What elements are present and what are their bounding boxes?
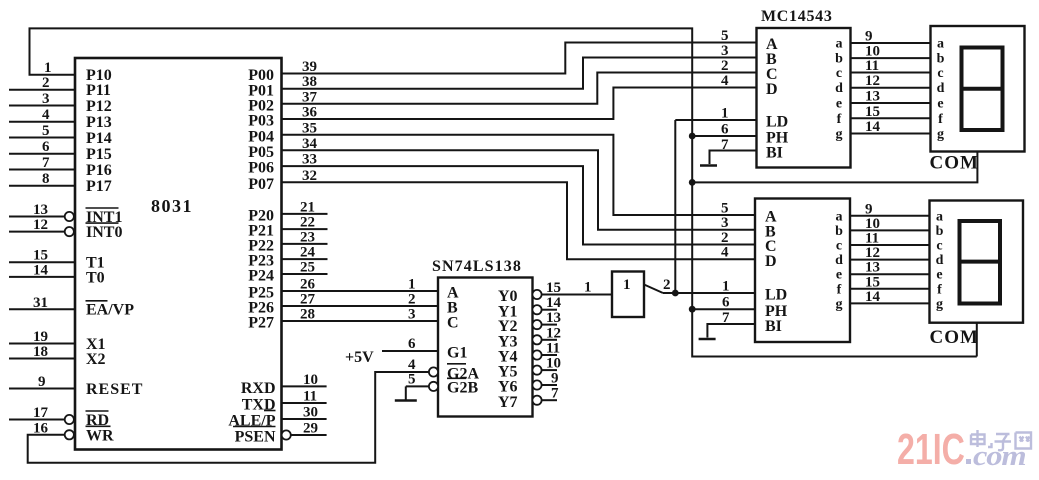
svg-text:8: 8 [42,171,50,187]
svg-text:13: 13 [546,310,561,326]
wire P06 pin33 to U3.C [282,166,756,244]
wire U2.c pin 11 to DS1.c [851,72,931,74]
svg-text:7: 7 [721,137,729,153]
junction PH net / U2.PH [689,133,696,140]
inversion bubble U4.G2A [429,367,438,376]
wire RD pin 17 stub [9,419,65,421]
svg-text:P15: P15 [86,146,112,163]
wire U4.Y7 pin 7 stub [542,399,557,401]
wire P11 pin 2 stub [9,89,75,91]
svg-text:COM: COM [930,153,979,174]
svg-text:15: 15 [33,248,48,264]
wire P13 pin 4 stub [9,121,75,123]
wire P25 pin 26 to U4.A [282,290,439,292]
svg-text:2: 2 [42,75,50,91]
inversion bubble U4.Y3 [532,335,541,344]
wire U3.a pin 9 to DS2.a [850,215,929,217]
wire P12 pin 3 stub [9,105,75,107]
svg-text:2: 2 [721,58,729,74]
wire P03 pin36 to U2.D [282,88,757,120]
svg-text:e: e [936,268,942,283]
svg-text:c: c [936,239,942,254]
junction LD net [672,290,679,297]
wire U4.Y2 pin 13 stub [542,324,557,326]
wire P26 pin 27 to U4.B [282,305,439,307]
svg-text:e: e [836,97,842,112]
svg-text:6: 6 [721,122,729,138]
svg-text:LD: LD [765,287,787,304]
inversion bubble U4.Y5 [532,366,541,375]
svg-text:10: 10 [303,372,318,388]
wire U4.Y5 pin 10 stub [542,369,557,371]
svg-text:g: g [937,127,944,142]
svg-text:3: 3 [408,307,416,323]
svg-text:b: b [835,52,843,67]
svg-text:1: 1 [408,277,416,293]
svg-text:f: f [938,112,943,127]
svg-text:2: 2 [721,230,729,246]
svg-text:P17: P17 [86,178,112,195]
svg-text:29: 29 [303,421,318,437]
wire P17 pin 8 stub [9,185,75,187]
IC U3 MC14543 body [755,199,850,343]
svg-text:12: 12 [865,73,880,89]
inversion bubble INT1 [65,212,74,221]
inversion bubble U4.Y4 [532,350,541,359]
svg-text:24: 24 [300,245,316,261]
svg-text:T0: T0 [86,269,105,286]
svg-text:9: 9 [38,374,46,390]
svg-text:G1: G1 [447,345,467,362]
svg-text:P05: P05 [248,144,274,161]
svg-text:P04: P04 [248,128,274,145]
svg-text:11: 11 [546,341,560,357]
wire EA/VP pin 31 stub [9,308,75,310]
svg-text:P27: P27 [248,315,274,332]
svg-text:10: 10 [865,216,880,232]
svg-text:g: g [936,297,943,312]
wire U2.f pin 15 to DS1.f [851,117,931,119]
svg-text:4: 4 [42,107,50,123]
svg-text:4: 4 [721,245,729,261]
svg-text:d: d [936,253,944,268]
wire P22 pin 23 stub [282,243,328,245]
svg-text:15: 15 [865,274,880,290]
svg-text:27: 27 [300,292,316,308]
svg-text:19: 19 [33,329,48,345]
svg-text:5: 5 [408,372,416,388]
wire U2.e pin 13 to DS1.e [851,102,931,104]
wire U4.G2B pin5 to ground [406,385,429,387]
wire +5V to U4.G1 pin6 [382,350,438,352]
svg-text:11: 11 [303,389,317,405]
svg-text:25: 25 [300,260,315,276]
svg-text:21: 21 [300,199,315,215]
svg-text:14: 14 [865,289,881,305]
svg-text:31: 31 [33,295,48,311]
wire P02 pin37 to U2.C [282,73,757,104]
inversion bubble INT0 [65,227,74,236]
svg-text:12: 12 [33,217,48,233]
svg-text:D: D [766,81,778,98]
svg-text:11: 11 [865,58,879,74]
svg-text:RXD: RXD [241,380,276,397]
svg-text:MC14543: MC14543 [761,8,833,25]
wire DS2.COM to PH net bottom [976,323,978,357]
svg-text:26: 26 [300,277,316,293]
wire X1 pin 19 stub [9,343,75,345]
svg-text:13: 13 [33,202,48,218]
svg-text:c: c [836,66,842,81]
svg-text:P06: P06 [248,160,274,177]
wire U3.c pin 11 to DS2.c [850,244,929,246]
svg-text:18: 18 [33,344,48,360]
svg-text:15: 15 [546,280,561,296]
wire Y0 to inverter U5 input [542,294,612,296]
wire U3.f pin 15 to DS2.f [850,288,929,290]
svg-text:COM: COM [930,327,979,348]
svg-text:14: 14 [33,262,49,278]
wire to U2.LD pin1 [675,119,756,121]
svg-text:1: 1 [721,106,729,122]
inverter gate U5 body [612,272,644,318]
svg-text:17: 17 [33,405,49,421]
wire U3.e pin 13 to DS2.e [850,273,929,275]
wire WR pin16 to G2A net [28,372,429,463]
svg-text:12: 12 [546,325,561,341]
wire P00 pin39 to U2.A [282,43,757,74]
svg-text:13: 13 [865,260,880,276]
svg-text:d: d [835,81,843,96]
svg-text:b: b [936,224,944,239]
svg-text:5: 5 [42,123,50,139]
svg-text:g: g [836,297,843,312]
wire U3.BI pin7 to ground [707,324,755,338]
wire P05 pin34 to U3.B [282,150,756,229]
svg-text:b: b [835,224,843,239]
wire PSEN pin 29 stub [291,434,327,436]
inversion bubble U4.Y0 [532,290,541,299]
svg-text:P11: P11 [86,82,111,99]
svg-text:C: C [447,315,459,332]
7-segment display DS1 body [931,26,1025,152]
svg-text:11: 11 [865,231,879,247]
svg-text:a: a [936,209,943,224]
svg-text:P13: P13 [86,114,112,131]
ground symbol at U3.BI [699,338,716,341]
svg-text:6: 6 [42,139,50,155]
wire PH net to U2.PH pin6 [692,135,756,137]
wire P27 pin 28 to U4.C [282,320,439,322]
wire U4.Y1 pin 14 stub [542,309,557,311]
svg-text:b: b [937,52,945,67]
svg-text:Y7: Y7 [498,394,518,411]
svg-text:9: 9 [551,371,559,387]
wire P04 pin35 to U3.A [282,135,756,215]
wire X2 pin 18 stub [9,358,75,360]
svg-text:LD: LD [766,114,788,131]
svg-text:WR: WR [86,427,114,444]
inversion bubble U4.Y1 [532,305,541,314]
wire U4.Y4 pin 11 stub [542,354,557,356]
inversion bubble U4.G2B [429,382,438,391]
svg-text:7: 7 [551,386,559,402]
wire U3.d pin 12 to DS2.d [850,259,929,261]
svg-text:BI: BI [766,145,783,162]
wire U2.g pin 14 to DS1.g [851,133,931,135]
wire TXD pin 11 stub [282,402,327,404]
svg-text:P24: P24 [248,268,274,285]
ground symbol at U4.G2B [405,386,407,400]
7-segment display DS2 body [930,201,1024,323]
svg-text:a: a [836,37,843,52]
svg-text:3: 3 [42,91,50,107]
svg-text:23: 23 [300,229,315,245]
svg-text:1: 1 [584,280,592,296]
svg-text:12: 12 [865,245,880,261]
svg-text:RESET: RESET [86,381,143,398]
svg-text:a: a [937,37,944,52]
wire INT0 pin 12 stub [9,231,65,233]
inversion bubble PSEN [282,430,291,439]
svg-text:1: 1 [722,279,730,295]
svg-text:14: 14 [546,295,562,311]
svg-text:3: 3 [721,43,729,59]
svg-text:2: 2 [663,277,671,293]
junction PH net / U3.PH [689,306,696,313]
wire PH net to U3.PH pin6 [692,308,755,310]
wire U3.g pin 14 to DS2.g [850,302,929,304]
inversion bubble U4.Y2 [532,320,541,329]
svg-text:5: 5 [721,28,729,44]
ground symbol at U2.BI [700,164,717,167]
svg-text:a: a [836,209,843,224]
wire P10 pin1 to top net [30,28,977,356]
IC U2 MC14543 body [757,28,851,168]
wire RXD pin 10 stub [282,385,327,387]
svg-text:e: e [836,268,842,283]
wire U2.d pin 12 to DS1.d [851,87,931,89]
wire P21 pin 22 stub [282,228,328,230]
wire P16 pin 7 stub [9,169,75,171]
svg-text:5: 5 [721,201,729,217]
svg-text:c: c [937,66,943,81]
wire U2.BI pin7 to ground [710,151,757,165]
svg-text:f: f [837,112,842,127]
svg-text:28: 28 [300,307,315,323]
wire DS1.COM to PH net [692,152,977,183]
IC U4 SN74LS138 decoder body [438,278,533,417]
svg-text:INT0: INT0 [86,224,122,241]
svg-text:P12: P12 [86,98,112,115]
svg-text:13: 13 [865,89,880,105]
wire LD net vertical [674,120,676,293]
wire T0 pin 14 stub [9,276,75,278]
wire P24 pin 25 stub [282,273,328,275]
wire U3.b pin 10 to DS2.b [850,229,929,231]
svg-text:16: 16 [33,420,49,436]
wire RESET pin 9 stub [9,388,75,390]
svg-text:d: d [835,253,843,268]
svg-text:2: 2 [408,292,416,308]
wire INT1 pin 13 stub [9,216,65,218]
svg-text:8031: 8031 [151,196,193,216]
svg-text:c: c [836,239,842,254]
wire U4.Y6 pin 9 stub [542,384,557,386]
wire T1 pin 15 stub [9,261,75,263]
svg-text:9: 9 [865,29,873,45]
inversion bubble WR [65,430,74,439]
svg-text:G2B: G2B [447,380,478,397]
svg-text:SN74LS138: SN74LS138 [432,258,522,275]
wire P07 pin32 to U3.D [282,182,756,259]
wire U2.b pin 10 to DS1.b [851,57,931,59]
inversion bubble RD [65,415,74,424]
IC U1 8031 microcontroller body [75,58,282,450]
svg-text:X2: X2 [86,351,106,368]
wire ALE/P pin 30 stub [282,418,327,420]
svg-text:4: 4 [721,73,729,89]
svg-text:22: 22 [300,215,315,231]
watermark 21IC logo [897,425,1031,474]
svg-text:f: f [937,282,942,297]
inversion bubble U4.Y7 [532,396,541,405]
wire P14 pin 5 stub [9,137,75,139]
svg-text:1: 1 [623,277,631,293]
svg-text:EA/VP: EA/VP [86,302,134,319]
svg-text:14: 14 [865,119,881,135]
svg-text:f: f [837,282,842,297]
svg-text:PSEN: PSEN [235,429,276,446]
svg-text:D: D [765,253,777,270]
wire U4.Y3 pin 12 stub [542,339,557,341]
svg-text:9: 9 [865,201,873,217]
svg-text:7: 7 [42,155,50,171]
svg-text:+5V: +5V [345,349,374,366]
svg-text:1: 1 [44,60,52,76]
svg-text:6: 6 [722,295,730,311]
wire P23 pin 24 stub [282,258,328,260]
wire U2.a pin 9 to DS1.a [851,42,931,44]
wire P20 pin 21 stub [282,213,328,215]
svg-text:7: 7 [722,310,730,326]
svg-text:P07: P07 [248,176,274,193]
svg-text:P16: P16 [86,162,112,179]
wire P01 pin38 to U2.B [282,58,757,89]
svg-text:30: 30 [303,405,318,421]
wire P15 pin 6 stub [9,153,75,155]
svg-text:6: 6 [408,336,416,352]
svg-text:21IC: 21IC [897,425,965,474]
wire U5 output pin2 to LD net [644,285,663,294]
inversion bubble U4.Y6 [532,380,541,389]
svg-text:P03: P03 [248,113,274,130]
DS1 digit figure 8 [962,48,1003,131]
svg-text:g: g [836,127,843,142]
svg-text:15: 15 [865,104,880,120]
svg-text:3: 3 [721,215,729,231]
svg-text:10: 10 [546,356,561,372]
junction PH net / DS1 COM [689,179,696,186]
svg-text:P14: P14 [86,130,112,147]
DS2 digit figure 8 [960,221,1001,304]
svg-text:d: d [937,81,945,96]
svg-text:BI: BI [765,318,782,335]
svg-text:e: e [937,97,943,112]
